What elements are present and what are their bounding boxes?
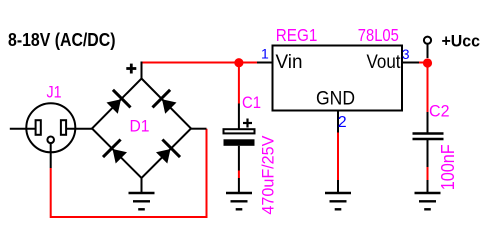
svg-text:D1: D1 <box>130 116 150 135</box>
svg-text:470uF/25V: 470uF/25V <box>258 135 277 215</box>
svg-text:Vout: Vout <box>367 51 401 73</box>
svg-text:Vin: Vin <box>276 51 303 73</box>
svg-text:+Ucc: +Ucc <box>442 31 481 50</box>
svg-text:REG1: REG1 <box>276 25 318 45</box>
svg-text:78L05: 78L05 <box>358 25 399 45</box>
svg-text:1: 1 <box>261 46 269 62</box>
svg-text:8-18V (AC/DC): 8-18V (AC/DC) <box>8 30 116 50</box>
svg-text:100nF: 100nF <box>438 144 458 190</box>
svg-text:2: 2 <box>338 114 347 131</box>
svg-text:3: 3 <box>402 47 410 62</box>
svg-text:C2: C2 <box>429 101 450 120</box>
svg-text:GND: GND <box>316 88 355 110</box>
svg-text:J1: J1 <box>47 82 62 101</box>
svg-text:C1: C1 <box>242 93 261 112</box>
